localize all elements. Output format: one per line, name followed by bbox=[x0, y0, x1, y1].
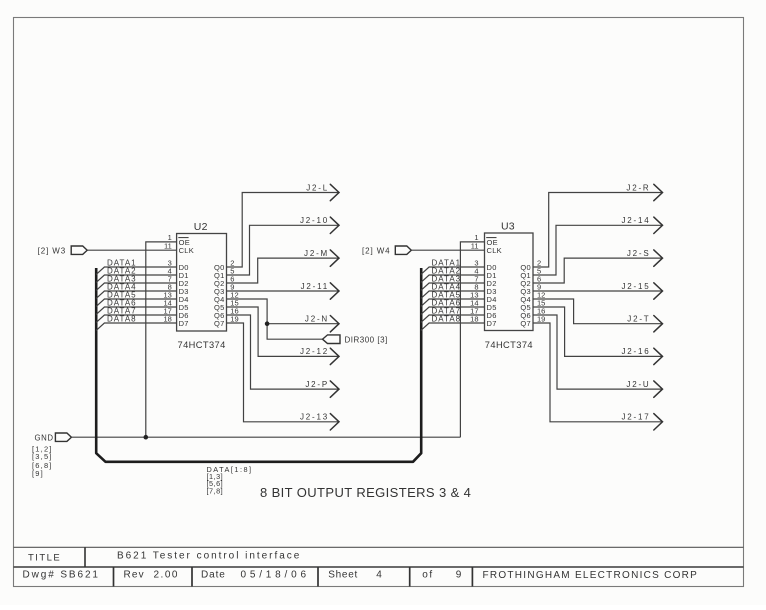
svg-text:CLK: CLK bbox=[179, 246, 195, 255]
wire DATA6 tap to U2 D5 bbox=[96, 307, 176, 314]
node W4 input flag bbox=[395, 246, 411, 254]
svg-text:of: of bbox=[422, 570, 433, 581]
node W3 input flag bbox=[71, 246, 87, 254]
node J2-14 arrow bbox=[654, 217, 663, 233]
svg-text:19: 19 bbox=[537, 314, 545, 323]
node J2-L arrow bbox=[330, 184, 339, 200]
wire U3 Q2 to J2-S bbox=[533, 258, 663, 283]
wire U3 Q6 to J2-U bbox=[533, 315, 663, 389]
wire U3 Q1 to J2-14 bbox=[533, 225, 663, 275]
svg-text:D7: D7 bbox=[487, 319, 497, 328]
svg-text:11: 11 bbox=[471, 241, 479, 250]
wire DATA7 tap to U2 D6 bbox=[96, 315, 176, 322]
svg-text:[7,8]: [7,8] bbox=[207, 486, 224, 495]
svg-text:GND: GND bbox=[35, 434, 54, 443]
svg-text:TITLE: TITLE bbox=[28, 553, 61, 564]
wire DATA8 tap to U3 D7 bbox=[421, 323, 485, 330]
svg-text:74HCT374: 74HCT374 bbox=[178, 340, 226, 350]
wire DATA2 tap to U3 D1 bbox=[421, 275, 485, 282]
node J2-10 arrow bbox=[330, 217, 339, 233]
wire DATA1 tap to U3 D0 bbox=[421, 267, 485, 274]
svg-text:J2-T: J2-T bbox=[627, 315, 650, 324]
svg-text:[3,5]: [3,5] bbox=[32, 452, 53, 461]
svg-text:[9]: [9] bbox=[32, 469, 44, 478]
ground flag GND bbox=[55, 433, 71, 441]
svg-text:U2: U2 bbox=[194, 221, 208, 233]
svg-text:DATA8: DATA8 bbox=[107, 314, 137, 323]
svg-text:J2-15: J2-15 bbox=[621, 282, 650, 291]
node J2-U arrow bbox=[654, 381, 663, 397]
wire J2-N to DIR300 bbox=[267, 324, 322, 340]
svg-text:11: 11 bbox=[164, 241, 172, 250]
op-amp U3 body (register 74HCT374) bbox=[485, 233, 534, 331]
wire DATA1 tap to U2 D0 bbox=[96, 267, 176, 274]
wire U2 OE to GND bbox=[146, 242, 177, 437]
node J2-M arrow bbox=[330, 250, 339, 266]
wire U3 Q7 to J2-17 bbox=[533, 323, 663, 422]
wire GND rail bbox=[71, 436, 460, 438]
wire U3 Q0 to J2-R bbox=[533, 193, 663, 268]
svg-text:D7: D7 bbox=[179, 319, 189, 328]
node J2-16 arrow bbox=[654, 348, 663, 364]
svg-text:Date: Date bbox=[201, 570, 226, 581]
title block bbox=[14, 546, 744, 548]
svg-text:[2] W4: [2] W4 bbox=[362, 246, 391, 255]
svg-text:B621 Tester control interface: B621 Tester control interface bbox=[117, 550, 301, 561]
svg-text:[2] W3: [2] W3 bbox=[38, 246, 67, 255]
svg-text:Q7: Q7 bbox=[520, 319, 531, 328]
svg-text:8 BIT OUTPUT REGISTERS 3 & 4: 8 BIT OUTPUT REGISTERS 3 & 4 bbox=[260, 485, 471, 500]
svg-text:J2-12: J2-12 bbox=[300, 347, 329, 356]
wire U2 Q7 to J2-13 bbox=[227, 323, 340, 422]
wire DATA5 tap to U2 D4 bbox=[96, 299, 176, 306]
node J2-S arrow bbox=[654, 250, 663, 266]
svg-text:18: 18 bbox=[470, 314, 478, 323]
svg-text:U3: U3 bbox=[501, 220, 515, 232]
svg-text:J2-R: J2-R bbox=[626, 183, 650, 192]
svg-text:Rev: Rev bbox=[124, 570, 145, 581]
svg-text:74HCT374: 74HCT374 bbox=[485, 340, 533, 350]
svg-text:FROTHINGHAM ELECTRONICS CORP: FROTHINGHAM ELECTRONICS CORP bbox=[483, 570, 699, 581]
wire U3 OE to GND bbox=[460, 242, 484, 437]
svg-text:18: 18 bbox=[163, 314, 171, 323]
node J2-P arrow bbox=[330, 381, 339, 397]
wire DATA2 tap to U2 D1 bbox=[96, 275, 176, 282]
svg-text:J2-14: J2-14 bbox=[621, 216, 650, 225]
wire U2 Q0 to J2-L bbox=[227, 193, 340, 268]
wire W4 to U3 CLK bbox=[411, 249, 484, 251]
svg-text:J2-N: J2-N bbox=[305, 315, 329, 324]
svg-text:4: 4 bbox=[376, 570, 382, 581]
wire U2 Q2 to J2-M bbox=[227, 258, 340, 283]
node J2-R arrow bbox=[654, 184, 663, 200]
wire U2 Q3 to J2-11 bbox=[227, 290, 340, 292]
wire U3 Q5 to J2-16 bbox=[533, 307, 663, 356]
wire DATA7 tap to U3 D6 bbox=[421, 315, 485, 322]
svg-text:J2-M: J2-M bbox=[304, 249, 329, 258]
wire DATA6 tap to U3 D5 bbox=[421, 307, 485, 314]
svg-text:9: 9 bbox=[456, 570, 462, 581]
bus DATA[1:8] bbox=[96, 268, 421, 462]
svg-text:Dwg# SB621: Dwg# SB621 bbox=[23, 570, 100, 581]
svg-text:J2-P: J2-P bbox=[305, 380, 329, 389]
wire U2 Q6 to J2-P bbox=[227, 315, 340, 389]
wire DATA3 tap to U2 D2 bbox=[96, 283, 176, 290]
node J2-13 arrow bbox=[330, 414, 339, 430]
svg-text:DATA8: DATA8 bbox=[432, 314, 462, 323]
svg-text:J2-10: J2-10 bbox=[300, 216, 329, 225]
svg-text:2.00: 2.00 bbox=[154, 570, 179, 581]
node J2-N arrow bbox=[330, 316, 339, 332]
wire DATA4 tap to U2 D3 bbox=[96, 291, 176, 298]
wire U3 Q4 to J2-T bbox=[533, 299, 663, 324]
svg-text:J2-16: J2-16 bbox=[621, 347, 650, 356]
node J2-11 arrow bbox=[330, 283, 339, 299]
wire DATA8 tap to U2 D7 bbox=[96, 323, 176, 330]
node J2-17 arrow bbox=[654, 414, 663, 430]
svg-text:Sheet: Sheet bbox=[328, 570, 358, 581]
junction GND / U2 OE bbox=[144, 435, 149, 440]
node J2-T arrow bbox=[654, 316, 663, 332]
wire DATA4 tap to U3 D3 bbox=[421, 291, 485, 298]
svg-text:J2-13: J2-13 bbox=[300, 413, 329, 422]
wire DATA5 tap to U3 D4 bbox=[421, 299, 485, 306]
svg-text:J2-11: J2-11 bbox=[301, 282, 329, 291]
wire U2 Q1 to J2-10 bbox=[227, 225, 340, 275]
svg-text:19: 19 bbox=[230, 314, 238, 323]
svg-text:Q7: Q7 bbox=[214, 319, 225, 328]
svg-text:CLK: CLK bbox=[487, 246, 503, 255]
node J2-12 arrow bbox=[330, 348, 339, 364]
svg-text:05/18/06: 05/18/06 bbox=[241, 570, 310, 581]
wire U2 Q4 to J2-N bbox=[227, 299, 340, 324]
junction J2-N / DIR300 bbox=[265, 321, 270, 326]
wire U3 Q3 to J2-15 bbox=[533, 290, 663, 292]
svg-text:J2-U: J2-U bbox=[626, 380, 650, 389]
svg-text:J2-L: J2-L bbox=[306, 183, 329, 192]
op-amp U2 body (register 74HCT374) bbox=[177, 234, 227, 332]
svg-text:J2-17: J2-17 bbox=[621, 413, 650, 422]
node J2-15 arrow bbox=[654, 283, 663, 299]
svg-text:DIR300 [3]: DIR300 [3] bbox=[345, 335, 388, 344]
wire W3 to U2 CLK bbox=[87, 249, 176, 251]
svg-text:J2-S: J2-S bbox=[627, 249, 651, 258]
wire DATA3 tap to U3 D2 bbox=[421, 283, 485, 290]
node DIR300 flag bbox=[323, 335, 341, 344]
wire U2 Q5 to J2-12 bbox=[227, 307, 340, 356]
